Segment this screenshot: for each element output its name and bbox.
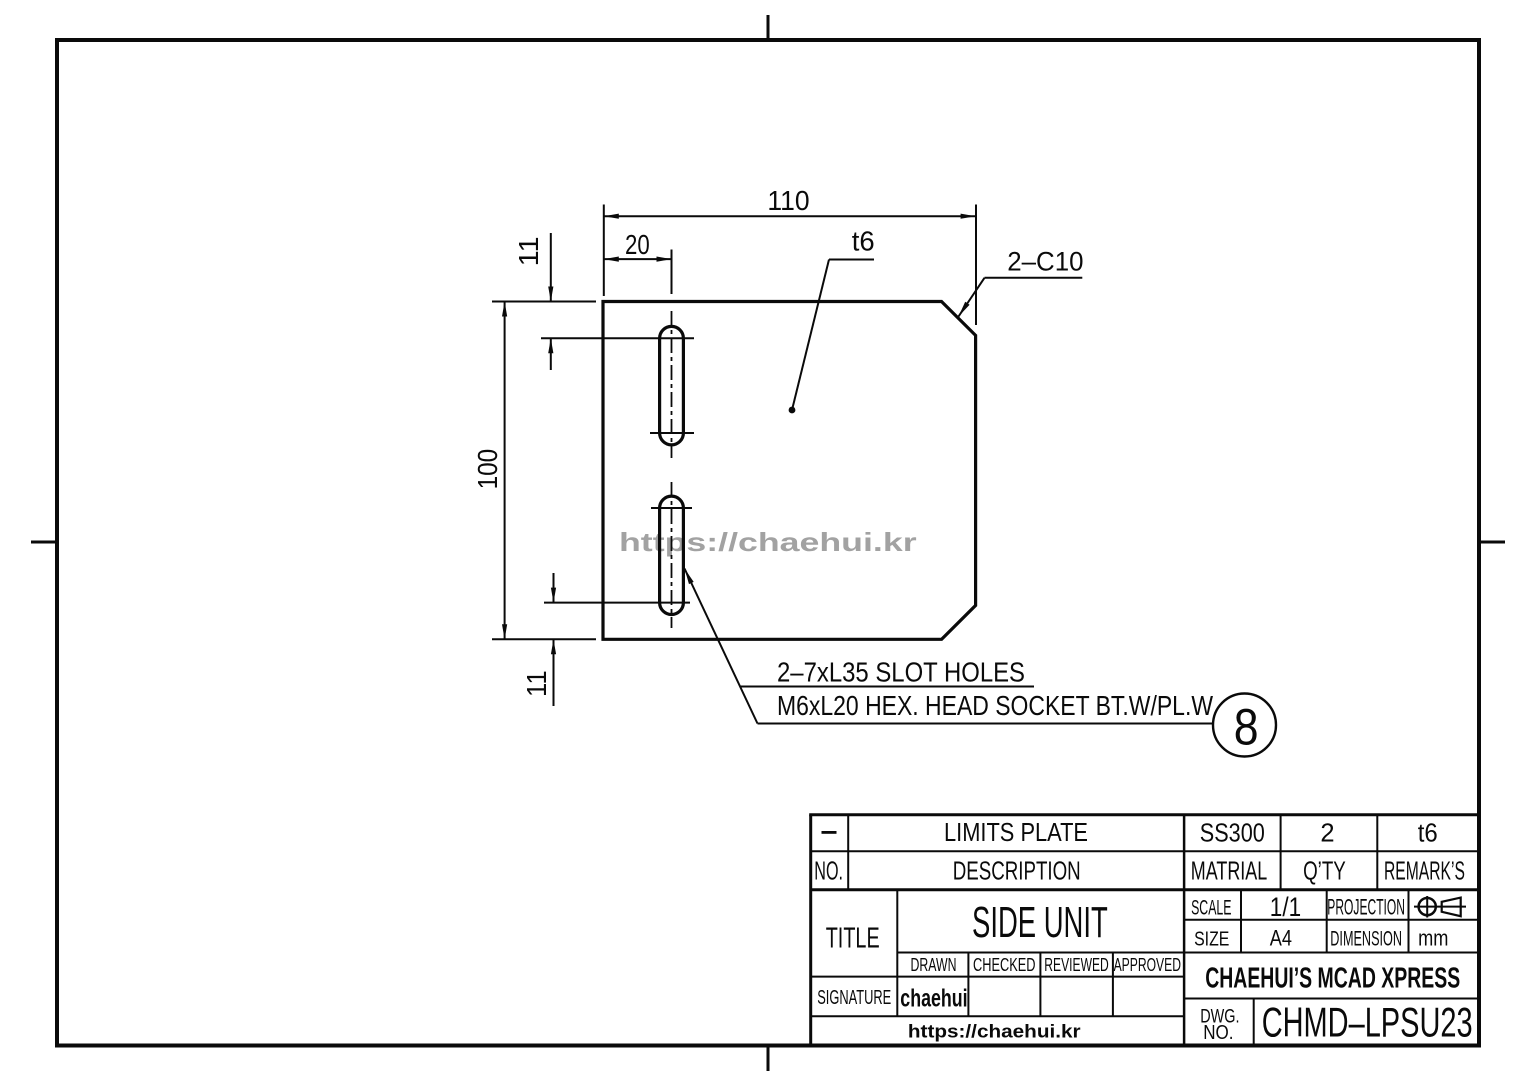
- svg-text:11: 11: [521, 670, 552, 697]
- plate outline (LIMITS PLATE part view): [603, 302, 976, 640]
- svg-text:DRAWN: DRAWN: [911, 954, 957, 975]
- svg-text:MATRIAL: MATRIAL: [1191, 858, 1267, 886]
- svg-text:M6xL20 HEX. HEAD SOCKET BT.W/P: M6xL20 HEX. HEAD SOCKET BT.W/PL.W: [777, 690, 1213, 721]
- svg-text:REMARK’S: REMARK’S: [1384, 858, 1465, 886]
- svg-text:APPROVED: APPROVED: [1114, 954, 1181, 975]
- svg-text:A4: A4: [1270, 926, 1292, 951]
- svg-text:LIMITS PLATE: LIMITS PLATE: [944, 819, 1088, 847]
- slot center line lower: [671, 482, 673, 628]
- balloon 8: [1213, 694, 1276, 757]
- svg-text:2–7xL35 SLOT HOLES: 2–7xL35 SLOT HOLES: [777, 657, 1025, 688]
- svg-text:PROJECTION: PROJECTION: [1327, 894, 1405, 919]
- svg-text:20: 20: [625, 229, 650, 260]
- svg-text:Q’TY: Q’TY: [1303, 858, 1346, 886]
- svg-text:NO.: NO.: [1203, 1022, 1233, 1044]
- leader slot holes note: [685, 569, 1214, 724]
- svg-text:mm: mm: [1418, 926, 1448, 951]
- dimension 20: [604, 250, 672, 295]
- dimension 100: [492, 302, 596, 640]
- svg-text:DESCRIPTION: DESCRIPTION: [953, 858, 1081, 886]
- svg-text:NO.: NO.: [814, 858, 843, 886]
- svg-text:SIGNATURE: SIGNATURE: [817, 986, 891, 1009]
- dimension 110: [604, 205, 976, 326]
- dimension 11 upper: [550, 233, 552, 370]
- slot arc-center ticks and extension lines: [541, 338, 694, 602]
- svg-text:TITLE: TITLE: [826, 923, 880, 955]
- svg-text:REVIEWED: REVIEWED: [1044, 954, 1109, 975]
- slot center line upper: [671, 311, 673, 458]
- svg-text:SS300: SS300: [1200, 820, 1265, 848]
- svg-text:https://chaehui.kr: https://chaehui.kr: [908, 1022, 1081, 1042]
- slot hole upper (7xL35): [660, 326, 684, 445]
- svg-text:110: 110: [767, 185, 809, 216]
- leader t6: [792, 260, 874, 411]
- svg-text:DIMENSION: DIMENSION: [1330, 928, 1402, 951]
- title block row1: item dash: [822, 831, 837, 834]
- svg-text:CHAEHUI’S MCAD XPRESS: CHAEHUI’S MCAD XPRESS: [1205, 963, 1460, 995]
- svg-text:SCALE: SCALE: [1191, 896, 1231, 919]
- svg-text:1/1: 1/1: [1270, 892, 1301, 922]
- leader 2-C10 (chamfer callout): [959, 278, 1083, 317]
- svg-text:8: 8: [1234, 699, 1259, 756]
- slot hole lower (7xL35): [660, 496, 684, 614]
- svg-text:CHECKED: CHECKED: [973, 954, 1036, 975]
- dimension 11 lower: [553, 573, 555, 706]
- svg-text:t6: t6: [1418, 820, 1438, 848]
- svg-text:2–C10: 2–C10: [1007, 246, 1083, 276]
- svg-text:CHMD–LPSU23: CHMD–LPSU23: [1262, 998, 1473, 1045]
- svg-text:11: 11: [513, 236, 544, 266]
- svg-text:t6: t6: [852, 225, 875, 256]
- svg-text:100: 100: [472, 449, 503, 490]
- svg-text:chaehui: chaehui: [900, 985, 967, 1013]
- third angle projection symbol: [1414, 896, 1466, 918]
- svg-text:SIZE: SIZE: [1194, 928, 1229, 951]
- svg-text:2: 2: [1320, 820, 1334, 848]
- svg-text:https://chaehui.kr: https://chaehui.kr: [619, 527, 917, 557]
- title block grid: [809, 815, 1479, 1046]
- svg-text:SIDE UNIT: SIDE UNIT: [972, 898, 1108, 947]
